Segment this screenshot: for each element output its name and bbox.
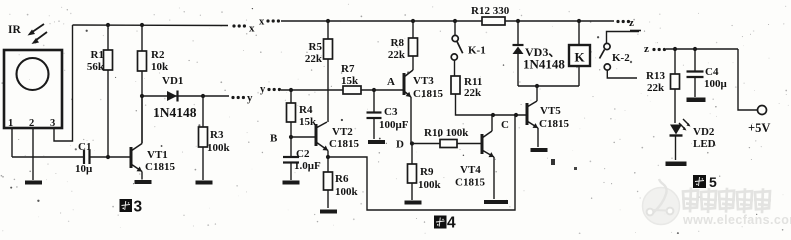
- svg-text:VT5: VT5: [540, 105, 561, 117]
- svg-text:R2: R2: [151, 49, 165, 61]
- svg-text:5: 5: [709, 174, 717, 190]
- svg-text:C: C: [501, 119, 509, 131]
- svg-text:C3: C3: [384, 106, 398, 118]
- svg-text:VT3: VT3: [413, 75, 434, 87]
- svg-text:C1815: C1815: [539, 118, 569, 130]
- svg-text:15k: 15k: [341, 75, 359, 87]
- svg-text:LED: LED: [693, 138, 716, 150]
- svg-text:R3: R3: [210, 129, 224, 141]
- svg-text:C2: C2: [296, 148, 310, 160]
- svg-text:R10 100k: R10 100k: [424, 127, 469, 139]
- svg-text:VT2: VT2: [332, 126, 353, 138]
- svg-text:+5V: +5V: [748, 121, 770, 135]
- svg-text:D: D: [396, 139, 404, 151]
- svg-text:22k: 22k: [305, 53, 323, 65]
- svg-text:10μ: 10μ: [75, 163, 93, 175]
- svg-text:3: 3: [134, 199, 143, 216]
- svg-text:15k: 15k: [299, 116, 317, 128]
- svg-text:R6: R6: [335, 173, 349, 185]
- svg-text:C1815: C1815: [413, 88, 443, 100]
- svg-text:z: z: [644, 43, 649, 55]
- svg-text:K: K: [574, 50, 585, 65]
- svg-text:VT1: VT1: [147, 149, 168, 161]
- svg-text:C1815: C1815: [329, 138, 359, 150]
- svg-text:x: x: [259, 17, 265, 28]
- svg-text:100k: 100k: [418, 179, 442, 191]
- svg-text:x: x: [249, 23, 255, 35]
- svg-text:100k: 100k: [335, 186, 359, 198]
- svg-text:R5: R5: [309, 41, 323, 53]
- svg-text:2: 2: [29, 118, 34, 129]
- svg-text:C1: C1: [78, 141, 91, 153]
- svg-text:z: z: [629, 17, 634, 29]
- svg-text:R8: R8: [391, 37, 405, 49]
- svg-text:R12 330: R12 330: [471, 5, 510, 17]
- svg-text:K-1: K-1: [468, 45, 486, 57]
- svg-text:IR: IR: [8, 24, 21, 36]
- svg-text:VD2: VD2: [693, 126, 715, 138]
- svg-text:1: 1: [8, 118, 13, 129]
- svg-text:R13: R13: [646, 70, 665, 82]
- svg-text:K-2: K-2: [612, 52, 630, 64]
- svg-text:www.elecfans.com: www.elecfans.com: [682, 213, 791, 227]
- svg-text:100μF: 100μF: [379, 119, 409, 131]
- svg-text:56k: 56k: [87, 61, 105, 73]
- svg-text:1N4148: 1N4148: [153, 105, 197, 120]
- svg-text:R1: R1: [91, 49, 104, 61]
- svg-text:R4: R4: [299, 104, 313, 116]
- svg-text:A: A: [387, 76, 395, 88]
- svg-text:22k: 22k: [647, 82, 665, 94]
- svg-text:1N4148: 1N4148: [523, 57, 565, 72]
- svg-text:R9: R9: [420, 166, 434, 178]
- svg-text:y: y: [247, 92, 253, 104]
- svg-text:C1815: C1815: [455, 177, 485, 189]
- svg-text:22k: 22k: [388, 49, 406, 61]
- svg-text:B: B: [270, 133, 278, 145]
- svg-text:10k: 10k: [151, 61, 169, 73]
- svg-text:3: 3: [50, 118, 55, 129]
- svg-text:VD1: VD1: [162, 75, 183, 87]
- svg-text:C4: C4: [705, 66, 719, 78]
- svg-text:VT4: VT4: [460, 164, 481, 176]
- svg-text:100μ: 100μ: [704, 78, 728, 90]
- svg-text:22k: 22k: [464, 87, 482, 99]
- svg-text:R7: R7: [341, 63, 355, 75]
- svg-text:4: 4: [447, 215, 456, 232]
- svg-text:C1815: C1815: [145, 161, 175, 173]
- svg-text:y: y: [260, 84, 266, 95]
- svg-text:100k: 100k: [207, 142, 231, 154]
- svg-text:1.0μF: 1.0μF: [294, 160, 321, 172]
